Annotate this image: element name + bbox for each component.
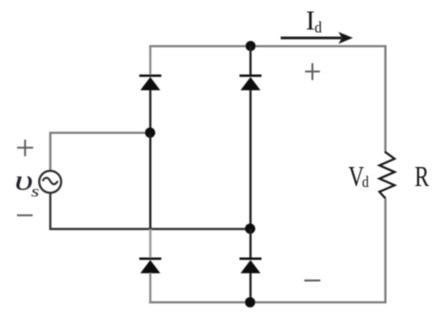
svg-text:d: d	[362, 174, 369, 191]
svg-text:R: R	[415, 161, 430, 193]
wire D2 anode to node C	[249, 90, 251, 229]
wire bottom bus	[149, 301, 386, 303]
resistor R zigzag	[379, 151, 394, 198]
label - (load polarity)	[304, 280, 320, 282]
diode D3 bottom-left (cathode bar)	[139, 258, 161, 260]
svg-text:I: I	[306, 5, 315, 35]
label Vd	[348, 161, 364, 193]
wire node C to D4	[249, 229, 251, 259]
diode D2 top-right (cathode bar)	[240, 74, 262, 76]
label Vd subscript d	[362, 174, 369, 191]
diode D2 top-right (triangle)	[241, 77, 261, 90]
current arrow Id (shaft)	[281, 37, 342, 40]
diode D4 bottom-right (cathode bar)	[240, 258, 262, 260]
wire left leg upper (top bus to D1)	[149, 45, 151, 76]
diode D4 bottom-right (triangle)	[241, 260, 261, 273]
label Id subscript d	[315, 19, 323, 37]
diode D3 bottom-left (triangle)	[140, 260, 160, 273]
node A (junction dot: left leg / source+)	[145, 128, 155, 138]
svg-text:s: s	[31, 183, 39, 201]
wire top bus	[149, 45, 386, 47]
AC source vs circle	[39, 171, 61, 193]
label vs	[15, 164, 34, 195]
node B (junction dot: top bus / right leg)	[246, 41, 256, 51]
wire right side lower (resistor to bottom bus)	[384, 198, 386, 303]
label + (source polarity)	[17, 140, 33, 157]
svg-text:d: d	[315, 19, 323, 37]
node D (junction dot: bottom bus / right leg)	[245, 297, 255, 307]
label + (load polarity)	[305, 63, 320, 80]
wire D1 anode to node A	[149, 90, 151, 133]
node C (junction dot: right leg / source-)	[245, 224, 255, 234]
wire left leg middle (node A across source- lead)	[149, 133, 151, 230]
label - (source polarity)	[17, 214, 33, 216]
current arrow Id (head)	[338, 32, 353, 44]
label R	[415, 161, 430, 193]
wire source top lead (vs+ to node A)	[50, 133, 151, 170]
diode D1 top-left (cathode bar)	[139, 74, 161, 76]
wire D3 anode to bottom bus	[149, 273, 151, 303]
wire right side upper (top bus to resistor)	[384, 45, 386, 152]
wire right leg upper (node B to D2)	[249, 46, 251, 77]
diode D1 top-left (triangle)	[140, 77, 160, 90]
label vs subscript s	[31, 183, 39, 201]
AC source sine wave	[43, 178, 58, 184]
wire left leg lower (crossing to D3)	[149, 229, 151, 259]
wire source bottom lead (vs- to node C)	[50, 193, 250, 229]
wire D4 anode to node D	[249, 273, 251, 302]
